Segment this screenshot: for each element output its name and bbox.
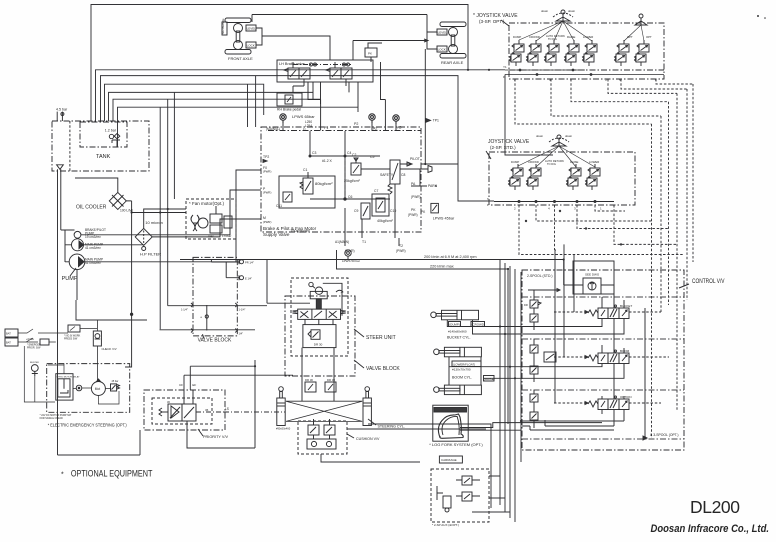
svg-text:LH Brake valve: LH Brake valve <box>279 62 305 66</box>
lever <box>536 134 573 146</box>
wire aux links <box>456 480 480 496</box>
wire bus 5 <box>109 92 314 121</box>
wire log fork out <box>460 423 602 431</box>
svg-text:(CROWD): (CROWD) <box>472 323 485 327</box>
svg-text:VALVE BLOCK: VALVE BLOCK <box>366 366 400 372</box>
svg-text:DR 30: DR 30 <box>327 378 335 382</box>
svg-text:220 l/min max: 220 l/min max <box>430 265 454 269</box>
mid line ports <box>168 305 267 307</box>
svg-text:PUMP: PUMP <box>62 276 78 282</box>
check valve top right 1 <box>240 260 244 264</box>
inner solid box <box>279 176 335 208</box>
parking brake connector <box>365 48 377 57</box>
svg-text:PK: PK <box>368 52 372 56</box>
joystick 3sp dash-dot box <box>509 23 664 79</box>
svg-text:* 2-SP AUX (&OPT.): * 2-SP AUX (&OPT.) <box>432 523 459 527</box>
svg-text:(PWR): (PWR) <box>408 213 418 217</box>
svg-text:CUSHION V/V: CUSHION V/V <box>356 437 380 441</box>
switch + labels <box>18 329 38 342</box>
wire bus 7 <box>118 107 359 146</box>
small pump <box>111 384 117 391</box>
svg-text:C7: C7 <box>374 189 378 193</box>
wire drop bus4b <box>247 84 249 127</box>
svg-text:TANK: TANK <box>96 154 111 160</box>
svg-text:(PWR): (PWR) <box>263 220 271 224</box>
steer unit dashed box <box>291 278 348 356</box>
svg-text:(LOWER/FLOAT): (LOWER/FLOAT) <box>453 362 475 366</box>
svg-text:(PWR): (PWR) <box>263 191 271 195</box>
pilot line j <box>577 205 669 229</box>
wire aux bottom links <box>472 476 510 512</box>
horn/buzzer <box>31 365 38 372</box>
pilot line i <box>554 205 556 250</box>
wire valveblock to priority CF/EF <box>184 366 190 390</box>
wire drops to filter area <box>173 92 175 199</box>
check valve top right 2 <box>240 276 244 280</box>
inner vertical <box>206 305 208 331</box>
svg-text:OPT: OPT <box>646 35 652 39</box>
svg-text:Doosan Infracore Co., Ltd.: Doosan Infracore Co., Ltd. <box>651 523 770 535</box>
pilot line h <box>536 205 652 221</box>
wire filter to M port <box>152 219 261 237</box>
svg-text:C9: C9 <box>354 209 358 213</box>
fan symbol <box>191 215 195 231</box>
svg-text:DR: DR <box>524 303 528 307</box>
svg-text:BAT: BAT <box>6 332 11 336</box>
svg-text:BOOM: BOOM <box>620 349 630 353</box>
svg-text:* Fan motor(Opt.): * Fan motor(Opt.) <box>189 201 225 206</box>
svg-text:STEERING CYL.: STEERING CYL. <box>378 425 405 429</box>
bottom line <box>160 329 256 331</box>
wire main pressure top loop <box>91 5 468 122</box>
svg-text:PR 1/4": PR 1/4" <box>245 261 254 265</box>
svg-text:Mot: Mot <box>95 387 100 391</box>
wire priority to steer <box>224 411 285 413</box>
svg-text:1.2 bar: 1.2 bar <box>105 129 117 133</box>
pump pilot circle <box>74 231 81 238</box>
wire pump drain vertical <box>76 270 78 300</box>
svg-text:LOWER: LOWER <box>589 160 599 164</box>
relief to park <box>431 203 439 213</box>
svg-text:C8: C8 <box>401 173 405 177</box>
svg-text:OIL COOLER: OIL COOLER <box>76 205 107 211</box>
wire park line <box>400 169 437 186</box>
svg-text:BUZZER: BUZZER <box>30 362 39 364</box>
svg-text:T1: T1 <box>362 240 366 244</box>
wire battery to relay <box>24 329 97 403</box>
wire drop to supply valve top <box>255 76 257 127</box>
wire vertical bundle left of control vv <box>500 260 521 385</box>
inner bottom solid lines <box>522 426 614 430</box>
svg-text:TP2: TP2 <box>263 155 269 159</box>
wire tank return bus 2 <box>96 70 506 121</box>
feedback loop <box>323 283 342 315</box>
node C6 <box>344 198 346 200</box>
suction strainer <box>57 165 64 170</box>
svg-text:C5: C5 <box>370 155 374 159</box>
svg-text:DR 30: DR 30 <box>314 343 323 347</box>
wire gauge stems to rail <box>283 100 396 131</box>
svg-text:(RAISE): (RAISE) <box>484 377 495 381</box>
wire bottom T lines <box>345 196 399 246</box>
safety valve C8 <box>380 160 405 196</box>
svg-text:LPWS 65bar: LPWS 65bar <box>292 114 315 119</box>
svg-text:TP1: TP1 <box>433 119 439 123</box>
wire top links <box>602 297 624 399</box>
svg-text:C3: C3 <box>312 151 316 155</box>
svg-text:H.P FILTER: H.P FILTER <box>140 252 161 257</box>
wire bundle verticals down to bottom <box>500 311 521 522</box>
wire bus 4 <box>105 84 264 121</box>
pilot line g <box>519 205 684 255</box>
svg-text:1-1/4": 1-1/4" <box>239 308 246 312</box>
main relief <box>583 273 601 295</box>
wire EF top link <box>190 365 255 367</box>
svg-text:A2: A2 <box>373 127 377 131</box>
svg-text:LEVEL: LEVEL <box>247 27 257 31</box>
svg-text:REAR AXLE: REAR AXLE <box>441 60 464 65</box>
tank divider <box>69 121 71 171</box>
brake valve box <box>277 60 373 82</box>
svg-text:150kgf/cm²: 150kgf/cm² <box>290 228 310 233</box>
internal dash-dot rail <box>268 130 421 132</box>
wire main P line <box>564 285 614 308</box>
wire pump pressure lines <box>81 190 261 235</box>
wire boom work lines <box>449 357 481 385</box>
svg-text:(PWR): (PWR) <box>396 249 406 253</box>
pilot line k <box>595 205 625 211</box>
oil cooler diamond <box>109 192 126 209</box>
svg-text:FRONT AXLE: FRONT AXLE <box>228 56 253 61</box>
svg-text:DUMP: DUMP <box>511 160 519 164</box>
svg-text:down: down <box>568 9 576 13</box>
wire steer return left <box>184 374 293 376</box>
wire pilot out <box>400 163 458 165</box>
wire pump to priority <box>58 430 141 455</box>
svg-text:CROWD: CROWD <box>529 35 540 39</box>
svg-text:down: down <box>541 9 549 13</box>
svg-text:(2-SP. STD.): (2-SP. STD.) <box>490 145 516 150</box>
wire brake jog drops <box>308 62 385 100</box>
P gallery inner box <box>573 261 614 294</box>
svg-text:RAISE: RAISE <box>570 160 579 164</box>
svg-text:LS: LS <box>225 407 229 411</box>
svg-text:(PWR): (PWR) <box>411 195 421 199</box>
svg-text:1-1/4": 1-1/4" <box>181 308 188 312</box>
wire bucket work lines <box>447 319 602 327</box>
wire pump suction <box>58 169 66 455</box>
valve block2 dashed box <box>285 296 355 376</box>
svg-text:SAFETY: SAFETY <box>380 173 394 177</box>
supply valve dash-dot box <box>261 127 421 232</box>
wire T drain vertical <box>545 308 645 437</box>
svg-text:10 micron: 10 micron <box>145 220 163 225</box>
svg-text:41 cm3/rev: 41 cm3/rev <box>85 246 101 250</box>
svg-text:(PWR): (PWR) <box>263 170 271 174</box>
wire steer ports down <box>305 319 333 324</box>
svg-text:#140x80x960: #140x80x960 <box>448 330 467 334</box>
svg-text:CF: CF <box>179 383 183 387</box>
svg-text:Y1: Y1 <box>503 65 507 69</box>
svg-text:CHECK V/V: CHECK V/V <box>102 347 117 351</box>
valve C7/C10 <box>372 189 396 223</box>
RH brake pedal box <box>277 93 302 106</box>
bucket aux reliefs <box>524 289 560 331</box>
rear axle wheels <box>440 22 466 58</box>
wire right dashed verticals <box>652 93 678 438</box>
wire bus 6 <box>113 99 321 121</box>
svg-text:BUCKET: BUCKET <box>620 304 632 308</box>
wire lever to valves <box>518 146 595 167</box>
fork claw icon <box>438 414 463 438</box>
svg-text:CONTROL V/V: CONTROL V/V <box>692 278 725 285</box>
svg-text:T2: T2 <box>399 244 403 248</box>
spool boom <box>544 349 669 364</box>
svg-text:#90x50x460: #90x50x460 <box>276 427 291 431</box>
battery boxes <box>5 329 18 337</box>
svg-text:LPWS 45bar: LPWS 45bar <box>433 217 455 221</box>
svg-text:VALVE BLOCK: VALVE BLOCK <box>198 338 232 344</box>
svg-text:#130x70x790: #130x70x790 <box>452 368 471 372</box>
wire lever to valves <box>519 21 592 41</box>
svg-text:4.5 bar: 4.5 bar <box>56 108 68 112</box>
bottom rail <box>494 201 614 203</box>
svg-text:80kgf/cm²: 80kgf/cm² <box>315 181 333 186</box>
wire option spool left links <box>521 420 624 422</box>
svg-text:PRESS S/W: PRESS S/W <box>64 338 78 341</box>
spool bucket <box>554 304 661 319</box>
check valve emergency <box>93 331 101 346</box>
svg-text:LOCK: LOCK <box>247 44 255 48</box>
svg-text:A3: A3 <box>397 126 401 130</box>
pilot line a <box>515 79 652 124</box>
small valves inside <box>462 476 472 485</box>
svg-text:PILOT: PILOT <box>410 157 420 161</box>
svg-text:BUCKET CYL.: BUCKET CYL. <box>447 336 471 340</box>
valve body right <box>326 62 352 86</box>
svg-text:* LOG FORK SYSTEM (OPT.): * LOG FORK SYSTEM (OPT.) <box>429 442 483 447</box>
svg-text:C2: C2 <box>352 153 356 157</box>
svg-text:STRG. MOTOR RELAY: STRG. MOTOR RELAY <box>57 376 81 379</box>
svg-text:FOR SIGNAL CHECK: FOR SIGNAL CHECK <box>40 417 64 420</box>
svg-text:170bar: 170bar <box>222 234 231 238</box>
svg-text:200 l/min at 6.9 M at 2,400: 200 l/min at 6.9 M at 2,400 rpm <box>424 255 477 259</box>
aux connector top <box>68 325 80 332</box>
svg-text:OPTIONAL EQUIPMENT: OPTIONAL EQUIPMENT <box>71 469 153 479</box>
svg-text:DR 30: DR 30 <box>305 378 313 382</box>
svg-text:40kgf/cm²: 40kgf/cm² <box>377 219 394 223</box>
valve units <box>509 164 524 190</box>
wire pedal link <box>293 86 304 93</box>
wire steer feed drop <box>266 260 268 304</box>
svg-text:2-SPOOL (STD.): 2-SPOOL (STD.) <box>527 274 553 278</box>
wire cross links <box>286 401 362 421</box>
valve units row <box>510 40 525 66</box>
pilot line c <box>571 79 669 102</box>
svg-text:P2: P2 <box>354 122 358 126</box>
svg-text:LEVEL: LEVEL <box>438 31 448 35</box>
svg-text:down: down <box>565 134 573 138</box>
svg-text:OPTION: OPTION <box>620 395 632 399</box>
stray marks top right <box>757 15 766 19</box>
filter diamond <box>135 228 152 245</box>
svg-text:P: P <box>487 203 489 207</box>
fan motor dashed box <box>186 199 236 239</box>
spool option <box>554 395 661 410</box>
pilot line l <box>614 205 677 244</box>
svg-text:19 cm3/rev: 19 cm3/rev <box>85 235 101 239</box>
wire rear axle link <box>427 32 437 49</box>
svg-text:(DUMP): (DUMP) <box>449 323 459 327</box>
option aux reliefs <box>530 390 538 428</box>
nodes C3 C4 <box>310 131 380 156</box>
svg-text:25kgf/cm²: 25kgf/cm² <box>344 179 361 183</box>
wire cooler return from fan <box>126 201 186 213</box>
svg-text:PA: PA <box>411 182 416 186</box>
wire steer T to cushion <box>314 421 330 425</box>
svg-text:#1.2 X: #1.2 X <box>322 159 333 163</box>
wire gray bundle feed <box>555 249 557 251</box>
svg-text:STEER UNIT: STEER UNIT <box>366 335 396 341</box>
svg-text:DUMP: DUMP <box>513 35 521 39</box>
svg-text:RH Brake pedal: RH Brake pedal <box>277 108 301 112</box>
svg-text:EF: EF <box>192 383 196 387</box>
wire steer feed in <box>267 302 310 304</box>
pilot vertical bundle right <box>661 84 693 312</box>
valve body left <box>284 62 310 86</box>
svg-text:PK: PK <box>411 208 416 212</box>
wire fan return riser down <box>125 213 132 368</box>
wire bundle inner verticals control vv <box>555 244 574 403</box>
svg-text:T: T <box>487 197 489 201</box>
tank outer box <box>52 121 149 171</box>
boom aux reliefs <box>530 339 538 382</box>
svg-text:CARRIAGE: CARRIAGE <box>441 458 457 462</box>
bottom rail <box>509 69 664 71</box>
wire front axle link <box>256 28 262 45</box>
svg-text:*: * <box>61 472 64 479</box>
wire brake valve ports down <box>313 82 358 107</box>
wire cooler to tank <box>75 178 118 192</box>
wire 220lmin line <box>337 250 509 424</box>
breather 4.5 bar <box>56 108 68 122</box>
svg-text:max.: max. <box>208 234 215 238</box>
svg-text:& 3-SPOOL (OPT.): & 3-SPOOL (OPT.) <box>650 433 679 437</box>
svg-text:* ELECTRIC EMERGENCY STEERING: * ELECTRIC EMERGENCY STEERING (OPT.) <box>48 423 127 428</box>
svg-text:BOOM CYL.: BOOM CYL. <box>452 376 472 380</box>
lever 2 <box>635 14 647 25</box>
svg-text:down: down <box>536 134 544 138</box>
valve C2 <box>344 153 361 183</box>
front axle wheels <box>225 18 251 54</box>
svg-text:LOCK: LOCK <box>438 48 446 52</box>
svg-text:BAT: BAT <box>6 341 11 345</box>
test couplers dash line <box>293 64 352 66</box>
wire steering to aux lines <box>347 424 491 508</box>
svg-text:C6: C6 <box>348 195 352 199</box>
svg-text:Supply Valve: Supply Valve <box>263 232 290 237</box>
pilot line b <box>551 79 661 116</box>
breather valve 1.2 bar <box>105 129 120 148</box>
svg-text:DL200: DL200 <box>690 497 740 517</box>
svg-text:E 1/4": E 1/4" <box>245 277 252 281</box>
pilot line d <box>608 79 677 93</box>
svg-text:TO DIG: TO DIG <box>547 162 556 166</box>
svg-text:C4: C4 <box>347 151 351 155</box>
joystick 2sp outer dash-dot box <box>489 152 635 205</box>
pilot line e <box>621 79 687 89</box>
wire pilot bus 3 <box>101 76 495 201</box>
motor circle <box>91 382 105 396</box>
valve body <box>168 404 182 421</box>
section divider rails <box>522 297 684 439</box>
3-spool opt label <box>643 436 647 440</box>
wire solid L to 2SP <box>505 75 553 156</box>
steer valve body <box>298 309 341 319</box>
svg-text:1/4": 1/4" <box>239 332 244 336</box>
tank inner box <box>80 122 127 147</box>
svg-text:36: 36 <box>205 408 209 412</box>
wire spool stems <box>602 410 624 422</box>
pilot line f <box>656 79 693 84</box>
svg-text:PRIOR. S/W: PRIOR. S/W <box>27 347 41 350</box>
svg-text:NO BRAKE: NO BRAKE <box>221 18 225 34</box>
brake caliper labels <box>246 25 256 31</box>
wire cushion bottom <box>321 454 420 462</box>
svg-text:(3-SP. OPT.): (3-SP. OPT.) <box>479 19 505 24</box>
control vv outer dash-dot box <box>522 270 684 450</box>
relay box <box>56 374 73 400</box>
check valves pair <box>305 378 336 392</box>
gerotor box <box>303 325 336 348</box>
wire motor line <box>73 388 119 404</box>
lever 1 <box>541 9 576 21</box>
svg-text:+/100w: +/100w <box>26 338 34 341</box>
wire priority ports <box>184 390 193 404</box>
svg-text:A1(MAIN): A1(MAIN) <box>335 240 349 244</box>
steering wheel symbol <box>309 282 313 286</box>
svg-text:45 bar: 45 bar <box>112 380 119 383</box>
gauges row <box>280 114 286 123</box>
wire filter to fan line <box>144 209 186 245</box>
svg-text:L254: L254 <box>305 124 312 128</box>
wire pilot feed up to axle <box>424 49 426 164</box>
svg-text:SEE DWG: SEE DWG <box>585 273 600 277</box>
valve block dash-dot box <box>193 257 237 336</box>
wire brake to rear axle <box>353 39 428 42</box>
valve C9 <box>354 203 370 219</box>
wire 200lmin main line <box>180 260 564 286</box>
svg-text:P1: P1 <box>324 126 328 130</box>
valve C11 <box>276 192 292 208</box>
valve C1 <box>300 168 333 194</box>
svg-text:C1: C1 <box>303 168 307 172</box>
svg-text:PRIORITY V/V: PRIORITY V/V <box>203 435 229 439</box>
